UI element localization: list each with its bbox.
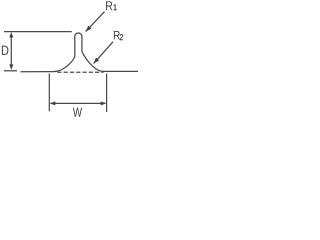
label R1 xyxy=(106,1,112,10)
top reference line (bump apex level) xyxy=(4,31,72,33)
label R2 xyxy=(114,31,120,39)
dimension D vertical line xyxy=(10,34,12,69)
W arrowhead left xyxy=(50,101,56,105)
W left extension line xyxy=(48,74,50,112)
D arrowhead up xyxy=(9,32,13,38)
R1 leader line xyxy=(86,12,105,32)
D arrowhead down xyxy=(9,64,13,70)
bump profile (left baseline, left fillet R2, sides, top radius R1, right fillet, right baseline) xyxy=(21,33,139,72)
W right extension line xyxy=(106,74,108,113)
R1 arrowhead xyxy=(86,26,92,32)
label W xyxy=(73,108,82,117)
W arrowhead right xyxy=(101,101,107,105)
dimension W horizontal line xyxy=(51,102,106,104)
R2 arrowhead xyxy=(94,58,100,64)
label D xyxy=(2,46,9,55)
baseline tick under D arrow xyxy=(4,70,17,72)
dashed base line under bump xyxy=(56,71,104,73)
R2 leader line xyxy=(94,42,113,64)
